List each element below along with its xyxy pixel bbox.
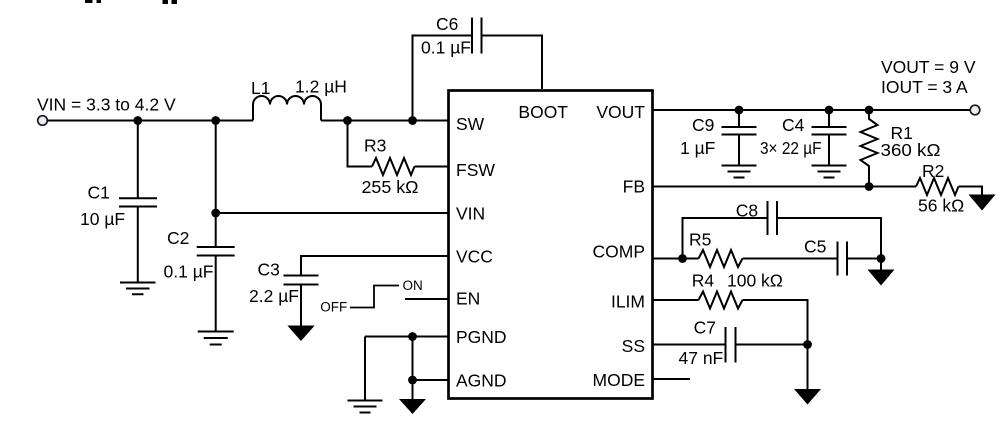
wire C8 to junction — [777, 218, 881, 259]
resistor R1 — [861, 110, 878, 187]
svg-text:C1: C1 — [88, 182, 110, 202]
capacitor C2 — [197, 247, 235, 332]
ground triangle after R2 — [969, 195, 996, 211]
wire VCC branch — [301, 256, 448, 276]
svg-text:2.2 µF: 2.2 µF — [249, 286, 299, 306]
op-amp U1 IC box — [449, 91, 653, 399]
capacitor C5 — [838, 242, 848, 276]
wire junction to ground — [880, 259, 882, 271]
ground earth under C9 — [722, 166, 757, 178]
svg-text:C2: C2 — [167, 228, 189, 248]
svg-text:0.1 µF: 0.1 µF — [164, 262, 214, 282]
svg-text:VOUT: VOUT — [596, 102, 645, 122]
svg-text:L1: L1 — [251, 78, 270, 98]
wire ILIM pin — [653, 299, 699, 301]
svg-text:C5: C5 — [804, 236, 826, 256]
ground earth under C1 — [120, 283, 156, 295]
junction node FB / R1 bottom — [865, 182, 874, 191]
svg-text:360 kΩ: 360 kΩ — [881, 140, 941, 160]
svg-text:R4: R4 — [692, 271, 715, 291]
wire FB rail — [653, 186, 916, 188]
wire SS pin — [653, 344, 726, 346]
node VIN input terminal — [38, 116, 48, 126]
svg-text:PGND: PGND — [456, 327, 507, 347]
svg-text:ON: ON — [403, 278, 423, 293]
ground triangle COMP net — [868, 270, 895, 286]
svg-text:VOUT = 9 V: VOUT = 9 V — [881, 57, 976, 77]
ground triangle under C3 — [287, 326, 314, 342]
junction node VIN tap — [211, 209, 220, 218]
ground triangle AGND — [399, 399, 426, 414]
ground earth under C4 — [812, 166, 847, 178]
wire PGND to AGND — [412, 337, 414, 400]
inductor L1 — [253, 96, 321, 121]
capacitor C8 — [768, 201, 778, 235]
junction node C9 tap — [735, 106, 744, 115]
svg-text:C7: C7 — [694, 318, 716, 338]
capacitor C4 — [812, 110, 847, 166]
svg-text:R3: R3 — [364, 136, 386, 156]
svg-text:1 µF: 1 µF — [680, 138, 715, 158]
svg-text:VIN: VIN — [456, 204, 485, 224]
svg-text:ILIM: ILIM — [611, 292, 645, 312]
junction node R1 top — [865, 106, 874, 115]
svg-text:SS: SS — [622, 336, 645, 356]
wire C5 to junction — [847, 258, 881, 260]
svg-text:VCC: VCC — [456, 246, 493, 266]
junction node C4 tap — [825, 106, 834, 115]
wire C6 left branch — [413, 36, 473, 121]
svg-text:MODE: MODE — [593, 370, 646, 390]
svg-text:OFF: OFF — [320, 300, 347, 315]
wire VOUT rail — [653, 109, 970, 111]
wire R4 to SS junction — [743, 300, 808, 345]
wire FSW branch — [348, 121, 373, 167]
svg-text:EN: EN — [456, 289, 480, 309]
svg-text:1.2 µH: 1.2 µH — [295, 77, 347, 97]
junction node SW / C6 tap — [408, 116, 417, 125]
svg-text:C8: C8 — [736, 201, 758, 221]
svg-text:56 kΩ: 56 kΩ — [918, 196, 964, 216]
svg-text:3× 22 µF: 3× 22 µF — [760, 138, 822, 158]
resistor R4 — [699, 292, 743, 309]
node VOUT output terminal — [970, 105, 980, 115]
svg-text:BOOT: BOOT — [518, 102, 568, 122]
wire input rail — [47, 120, 448, 122]
junction node R3 tap — [343, 116, 352, 125]
svg-text:10 µF: 10 µF — [80, 209, 125, 229]
svg-text:FSW: FSW — [456, 160, 495, 180]
junction node AGND — [408, 376, 417, 385]
junction node PGND — [408, 332, 417, 341]
resistor R2 — [916, 178, 959, 195]
wire PGND pin — [365, 337, 448, 401]
svg-text:C6: C6 — [436, 14, 458, 34]
junction node COMP — [678, 254, 687, 263]
wire COMP pin — [653, 258, 699, 260]
wire EN pin — [405, 298, 448, 300]
wire C8 branch — [683, 218, 768, 259]
svg-text:AGND: AGND — [456, 371, 507, 391]
junction node C2 tap — [211, 116, 220, 125]
ground triangle SS net — [794, 389, 821, 405]
wire R3 to FSW pin — [415, 166, 449, 168]
capacitor C1 — [119, 121, 157, 283]
capacitor C9 — [722, 110, 757, 166]
wire SS to ground — [807, 345, 809, 390]
wire C2 branch — [215, 121, 217, 248]
capacitor C6 — [472, 18, 482, 54]
svg-text:47 nF: 47 nF — [679, 348, 724, 368]
ground earth under PGND — [348, 401, 383, 413]
svg-text:100 kΩ: 100 kΩ — [727, 271, 783, 291]
svg-text:C9: C9 — [692, 115, 714, 135]
wire AGND pin — [413, 379, 449, 381]
svg-text:SW: SW — [456, 114, 485, 134]
heading descenders (cut-off title) — [85, 0, 177, 4]
junction node C1 tap — [133, 116, 142, 125]
wire MODE pin — [653, 378, 690, 380]
capacitor C3 — [284, 276, 319, 327]
switch EN on/off — [350, 286, 399, 308]
ground earth under C2 — [198, 332, 234, 345]
svg-text:VIN = 3.3 to 4.2 V: VIN = 3.3 to 4.2 V — [37, 95, 176, 115]
svg-text:C4: C4 — [782, 115, 805, 135]
svg-text:R2: R2 — [922, 161, 944, 181]
svg-text:C3: C3 — [258, 259, 280, 279]
resistor R3 — [372, 158, 415, 175]
wire C7 to junction — [736, 344, 808, 346]
junction node SS — [803, 340, 812, 349]
resistor R5 — [699, 250, 743, 267]
svg-text:IOUT = 3 A: IOUT = 3 A — [881, 77, 968, 97]
svg-text:0.1 µF: 0.1 µF — [421, 38, 471, 58]
wire C6 to BOOT pin — [482, 36, 543, 90]
capacitor C7 — [726, 327, 736, 363]
wire VIN pin — [216, 212, 448, 214]
svg-text:COMP: COMP — [593, 241, 646, 261]
svg-text:R5: R5 — [689, 230, 711, 250]
junction node C5/C8 — [877, 254, 886, 263]
wire R2 to ground — [959, 187, 983, 196]
wire R5 to C5 — [743, 258, 838, 260]
svg-text:FB: FB — [623, 177, 645, 197]
svg-text:255 kΩ: 255 kΩ — [362, 177, 419, 197]
